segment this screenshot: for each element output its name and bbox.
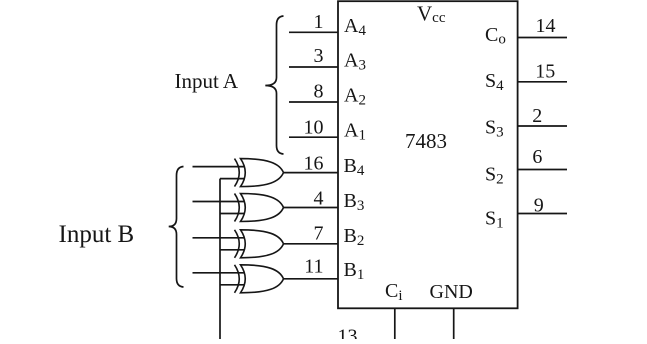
- wire pin 6 (S2): [518, 169, 568, 171]
- wire pin 16 (B4): [283, 172, 338, 174]
- wire pin 4 (B3): [283, 207, 338, 209]
- XOR gate X3 (B2): [235, 230, 284, 258]
- wire pin 15 (S4): [518, 81, 568, 83]
- svg-text:14: 14: [536, 15, 556, 37]
- wire pin 10 (A1): [289, 136, 338, 138]
- wire GND pin: [453, 308, 455, 339]
- wire XOR2 input B branch: [220, 213, 244, 215]
- svg-text:7: 7: [314, 223, 324, 245]
- svg-text:13: 13: [338, 325, 358, 339]
- wire pin 3 (A3): [289, 66, 338, 68]
- svg-text:11: 11: [304, 255, 323, 277]
- svg-text:2: 2: [532, 105, 542, 127]
- svg-text:7483: 7483: [405, 129, 447, 153]
- wire pin 14 (Co): [518, 37, 568, 39]
- wire pin 8 (A2): [289, 101, 338, 103]
- svg-text:GND: GND: [430, 281, 473, 303]
- wire XOR3 input B branch: [220, 249, 244, 251]
- wire bus vertical (XOR second inputs): [219, 179, 221, 339]
- XOR gate X1 (B4): [235, 159, 284, 187]
- svg-text:Input B: Input B: [59, 221, 135, 248]
- svg-text:8: 8: [314, 81, 324, 103]
- XOR gate X4 (B1): [235, 265, 284, 293]
- wire pin 13 (Ci): [394, 308, 396, 339]
- wire pin 2 (S3): [518, 125, 568, 127]
- svg-text:15: 15: [535, 60, 555, 82]
- svg-text:1: 1: [314, 11, 324, 33]
- wire XOR2 input A stub: [193, 201, 245, 203]
- wire XOR1 input A stub: [193, 166, 245, 168]
- wire XOR4 input B branch: [220, 284, 244, 286]
- brace Input A: [265, 16, 283, 154]
- wire XOR4 input A stub: [193, 272, 245, 274]
- wire pin 9 (S1): [518, 213, 568, 215]
- svg-text:Input A: Input A: [175, 69, 239, 93]
- wire XOR3 input A stub: [193, 237, 245, 239]
- svg-text:10: 10: [304, 116, 324, 138]
- svg-text:3: 3: [314, 45, 324, 67]
- svg-text:4: 4: [314, 188, 324, 210]
- IC U1 7483 body: [338, 1, 518, 308]
- brace Input B: [169, 167, 184, 288]
- svg-text:16: 16: [304, 153, 324, 175]
- wire pin 11 (B1): [283, 278, 338, 280]
- wire pin 7 (B2): [283, 243, 338, 245]
- XOR gate X2 (B3): [235, 194, 284, 222]
- wire XOR1 input B branch: [220, 178, 244, 180]
- svg-text:9: 9: [534, 194, 544, 216]
- svg-text:6: 6: [532, 146, 542, 168]
- wire pin 1 (A4): [289, 31, 338, 33]
